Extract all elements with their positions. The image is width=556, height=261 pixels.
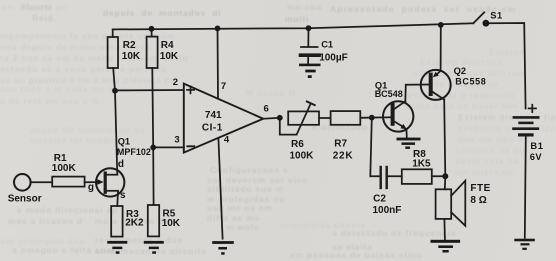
svg-text:4: 4: [224, 134, 230, 145]
svg-text:6V: 6V: [530, 152, 543, 162]
svg-text:R6: R6: [291, 139, 304, 150]
svg-text:C1: C1: [321, 40, 333, 50]
svg-text:s: s: [120, 190, 126, 201]
svg-text:Q2: Q2: [454, 66, 466, 76]
svg-text:22K: 22K: [333, 150, 354, 161]
svg-text:C2: C2: [373, 194, 386, 205]
svg-text:10K: 10K: [122, 51, 141, 62]
svg-text:MPF102: MPF102: [117, 147, 151, 157]
svg-text:2K2: 2K2: [125, 218, 144, 229]
svg-text:R7: R7: [334, 139, 347, 150]
svg-text:Q1: Q1: [118, 136, 130, 146]
svg-text:g: g: [88, 182, 94, 193]
svg-text:BC558: BC558: [455, 77, 486, 87]
svg-text:8 Ω: 8 Ω: [470, 195, 486, 206]
svg-text:100µF: 100µF: [319, 52, 348, 63]
svg-text:100nF: 100nF: [373, 205, 402, 216]
svg-text:Sensor: Sensor: [8, 194, 42, 205]
svg-text:B1: B1: [530, 141, 543, 151]
svg-text:BC548: BC548: [375, 89, 403, 99]
svg-text:R4: R4: [161, 40, 174, 51]
svg-text:10K: 10K: [162, 218, 181, 229]
svg-text:6: 6: [264, 104, 269, 115]
svg-text:2: 2: [173, 77, 178, 88]
svg-text:7: 7: [221, 81, 226, 92]
svg-text:10K: 10K: [160, 51, 179, 62]
svg-text:3: 3: [174, 134, 179, 145]
svg-text:741: 741: [205, 110, 222, 121]
svg-text:100K: 100K: [52, 163, 77, 174]
svg-text:S1: S1: [490, 11, 503, 21]
svg-text:FTE: FTE: [470, 183, 490, 194]
svg-text:d: d: [118, 159, 124, 170]
svg-text:CI-1: CI-1: [202, 123, 223, 134]
svg-text:100K: 100K: [290, 150, 315, 161]
svg-text:R2: R2: [123, 40, 136, 51]
svg-text:1K5: 1K5: [412, 158, 431, 169]
